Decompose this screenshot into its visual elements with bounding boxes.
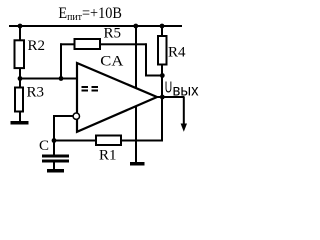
- svg-text:R5: R5: [104, 26, 122, 42]
- node dot rail-center: [133, 24, 138, 29]
- svg-text:R1: R1: [99, 148, 117, 164]
- ground under C: [47, 169, 64, 173]
- svg-text:C: C: [39, 138, 49, 154]
- resistor R2: [15, 40, 25, 68]
- wire op-amp output to node: [157, 96, 163, 98]
- wire V- to ground: [135, 107, 137, 163]
- node dot rail-left: [18, 24, 23, 29]
- resistor R4: [158, 36, 167, 65]
- node dot output: [160, 95, 165, 100]
- resistor R1: [96, 136, 121, 146]
- svg-text:R2: R2: [28, 38, 46, 54]
- comparator input marks = =: [82, 86, 99, 92]
- node dot rail-right: [160, 24, 165, 29]
- svg-text:CA: CA: [100, 54, 123, 70]
- op-amp U1 comparator CA: [77, 63, 157, 132]
- wire inverting drop: [53, 115, 55, 141]
- wire R1 right: [122, 140, 163, 142]
- output arrow: [181, 97, 187, 132]
- wire rail to R2: [19, 26, 21, 40]
- resistor R5: [75, 39, 101, 49]
- ground bottom right: [130, 162, 145, 166]
- wire R2 to R3: [19, 69, 21, 87]
- ground under R3: [11, 121, 29, 125]
- resistor R3: [15, 88, 23, 112]
- wire output vertical: [161, 76, 163, 142]
- wire C stub: [53, 141, 55, 155]
- wire C to ground: [53, 163, 55, 170]
- wire rail to R4: [161, 26, 163, 36]
- node dot below R4: [160, 73, 165, 78]
- wire R5 left drop: [60, 43, 62, 78]
- svg-text:R4: R4: [168, 45, 186, 61]
- wire inverting input: [54, 115, 73, 117]
- wire V+ supply to op-amp: [135, 26, 137, 89]
- capacitor C plate 2: [42, 160, 69, 163]
- node dot R5 drop: [59, 76, 64, 81]
- wire R4 to output node: [161, 66, 163, 76]
- inverting input bubble: [73, 113, 79, 119]
- wire R1 left: [54, 140, 95, 142]
- svg-text:U: U: [165, 80, 172, 97]
- node dot C junction: [52, 138, 57, 143]
- wire R3 to ground: [19, 113, 21, 122]
- wire R5 right: [101, 43, 147, 45]
- svg-text:Eпит=+10В: Eпит=+10В: [58, 5, 121, 23]
- svg-text:вых: вых: [173, 83, 199, 100]
- wire R5 left: [60, 43, 75, 45]
- svg-text:R3: R3: [27, 85, 45, 101]
- power rail +10V: [9, 25, 182, 27]
- node A divider junction: [18, 76, 23, 81]
- wire output stub: [162, 96, 185, 98]
- wire feedback drop: [145, 43, 147, 75]
- wire noninverting input: [20, 78, 77, 80]
- wire feedback to R4 node: [145, 75, 162, 77]
- capacitor C plate 1: [42, 155, 69, 158]
